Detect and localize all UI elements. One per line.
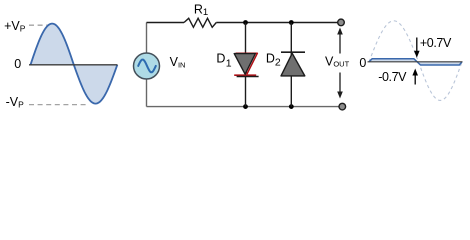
wire D2 branch (behind diode)	[290, 23, 292, 107]
label +0.7V	[420, 36, 452, 50]
node label -Vp	[6, 95, 25, 109]
wire bottom rail	[147, 106, 340, 108]
node input graph 0 axis	[29, 64, 118, 66]
node junction dot D1 top	[243, 20, 248, 25]
svg-text:1: 1	[226, 57, 232, 69]
svg-text:VOUT: VOUT	[325, 54, 350, 68]
label 0 (output graph)	[359, 56, 366, 70]
voltage source Vin (AC)	[134, 53, 160, 79]
node +0.7V arrow down	[414, 38, 420, 58]
label -0.7V	[378, 70, 407, 84]
node junction dot D1 bottom	[243, 104, 248, 109]
svg-text:+VP: +VP	[4, 19, 26, 33]
label D1	[216, 52, 231, 70]
label Vin	[170, 55, 186, 69]
svg-text:R1: R1	[194, 2, 208, 18]
svg-text:0: 0	[14, 57, 21, 71]
node output graph dashed sine (unclipped)	[369, 21, 462, 101]
label D2	[266, 51, 281, 68]
wire left vertical from source to bottom rail	[146, 80, 148, 107]
node input sine waveform Vin	[31, 24, 118, 104]
resistor R1	[184, 18, 216, 27]
diode D2	[281, 52, 305, 76]
svg-text:+0.7V: +0.7V	[420, 36, 452, 50]
label R1	[194, 2, 208, 18]
node junction dot D2 top	[289, 20, 294, 25]
svg-text:D2: D2	[266, 51, 281, 68]
diode D1 (red highlighted)	[234, 53, 258, 76]
node output clipped waveform negative band	[417, 62, 462, 65]
node -0.7V arrow up	[412, 69, 418, 85]
svg-text:VIN: VIN	[170, 55, 186, 69]
node label +Vp	[4, 19, 26, 33]
node junction dot D2 bottom	[289, 104, 294, 109]
node output terminal bottom	[339, 103, 346, 110]
node +Vp dashed level line (input graph)	[29, 24, 49, 26]
node label 0 (input graph)	[14, 57, 21, 71]
node output clipped waveform line	[369, 59, 462, 65]
node output graph 0 axis	[368, 61, 463, 63]
wire left vertical from source to top rail	[146, 23, 148, 53]
wire D1 branch (behind diode)	[245, 23, 247, 107]
node Vout arrow down	[337, 73, 343, 99]
svg-text:-VP: -VP	[6, 95, 25, 109]
node output clipped waveform positive band	[369, 59, 417, 62]
wire top rail right segment (resistor to output terminal)	[216, 22, 337, 24]
wire top rail left segment (source to resistor)	[147, 22, 185, 24]
node -Vp dashed level line (input graph)	[29, 104, 87, 106]
svg-text:D: D	[216, 52, 225, 66]
label Vout	[325, 54, 350, 68]
svg-text:-0.7V: -0.7V	[378, 70, 407, 84]
node output terminal top	[338, 19, 345, 26]
node Vout arrow up	[337, 28, 343, 54]
svg-text:0: 0	[359, 56, 366, 70]
